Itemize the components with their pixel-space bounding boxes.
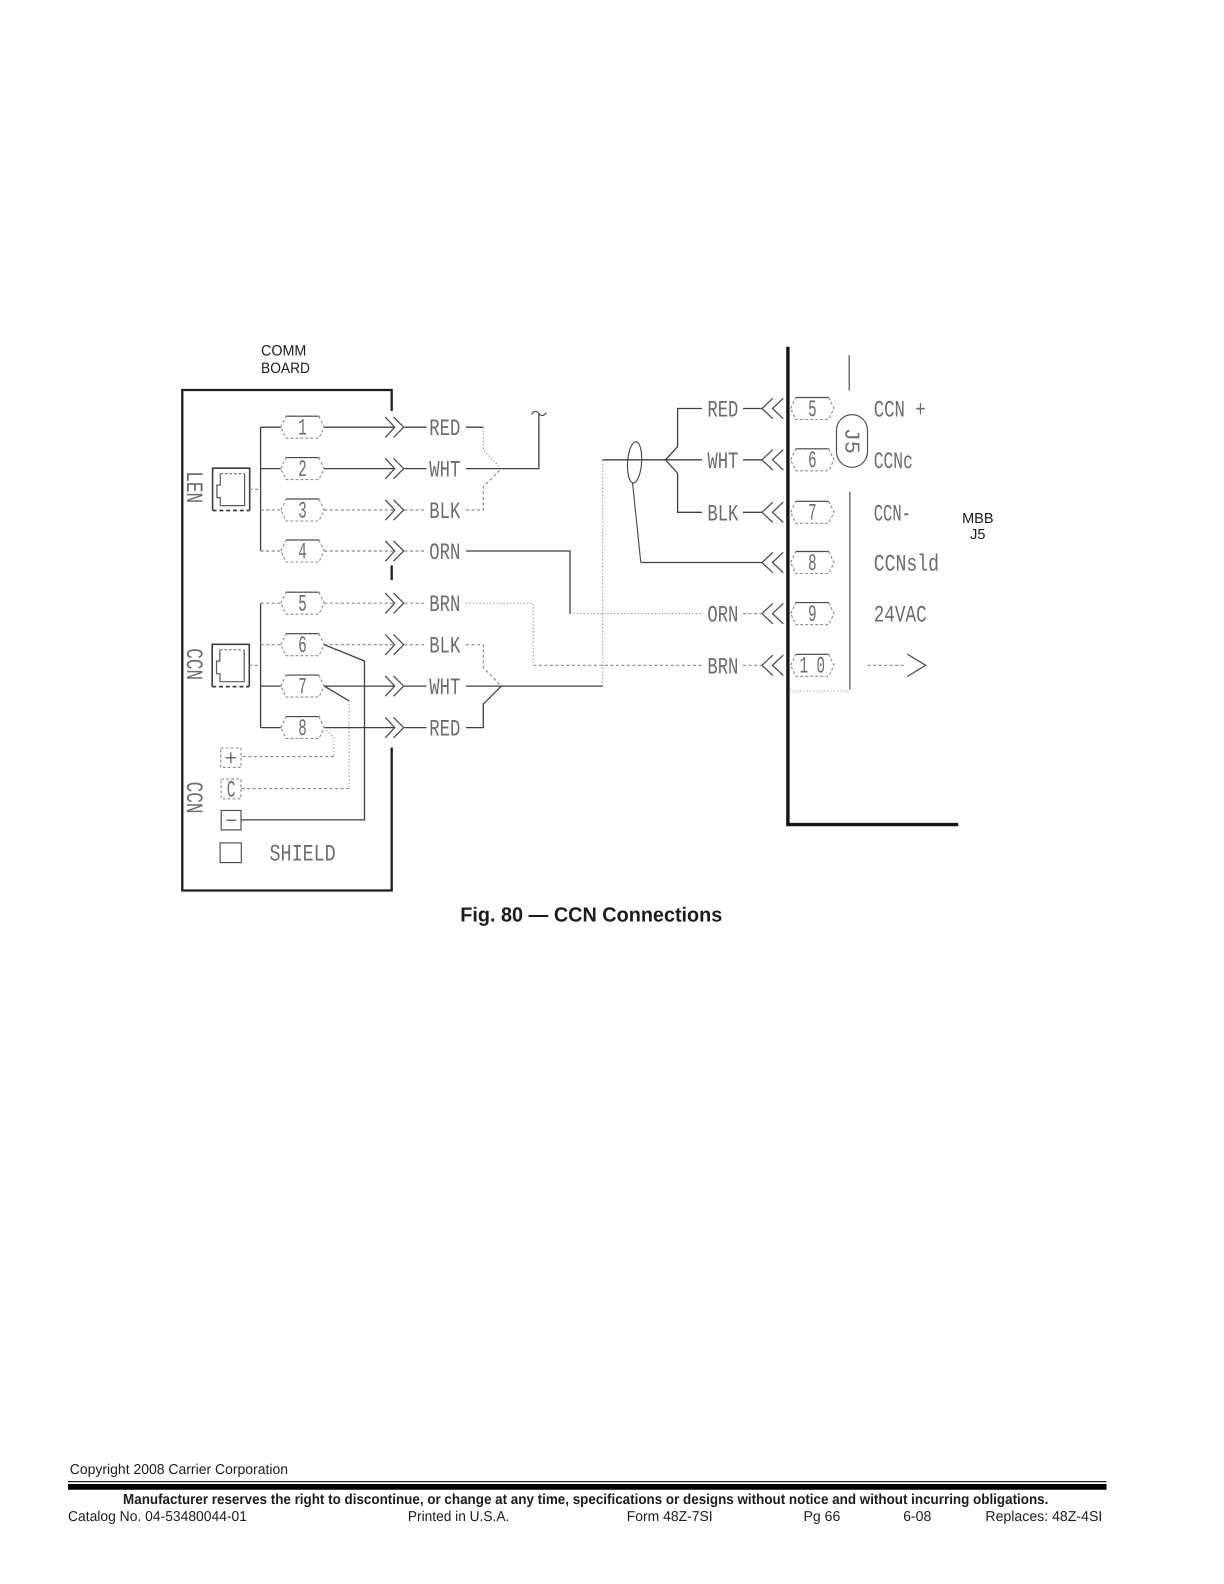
wire BRN(5) to MBB pin 10 <box>466 603 533 665</box>
wire pin 8 to + terminal <box>324 728 334 757</box>
J5 connector oval <box>837 415 868 468</box>
arrow pin 3 <box>385 500 394 520</box>
svg-text:BLK: BLK <box>429 499 461 526</box>
wire bus to pin 6 <box>261 644 281 646</box>
svg-text:CCN: CCN <box>179 648 206 680</box>
wire pin 3 to arrow <box>324 509 394 511</box>
svg-text:MBB: MBB <box>962 511 993 527</box>
terminal + <box>221 748 241 767</box>
wire label ORN pin 4 <box>405 550 427 552</box>
wire pin 7 to arrow <box>324 685 394 687</box>
svg-text:5: 5 <box>808 397 816 424</box>
LEN jack J1 <box>213 468 250 510</box>
SHIELD terminal <box>220 843 241 863</box>
svg-text:J5: J5 <box>970 527 985 543</box>
svg-text:C: C <box>227 778 235 805</box>
svg-text:Pg 66: Pg 66 <box>804 1509 841 1525</box>
svg-text:CCNc: CCNc <box>874 449 913 476</box>
svg-text:BRN: BRN <box>707 654 738 681</box>
pin 8 (MBB J5) <box>791 552 834 574</box>
wire label BLK pin 6 <box>405 644 427 646</box>
svg-text:Manufacturer reserves the righ: Manufacturer reserves the right to disco… <box>123 1492 1048 1508</box>
wire BLK(3) to merge <box>466 469 501 510</box>
wire pin 4 to arrow <box>324 550 394 552</box>
wire RED(8) to merge <box>466 686 501 728</box>
svg-text:Printed in U.S.A.: Printed in U.S.A. <box>408 1509 509 1525</box>
svg-text:9: 9 <box>808 602 816 629</box>
wire bus to pin 5 <box>261 602 281 604</box>
shield loop <box>626 441 643 483</box>
pin 5 (MBB J5) <box>791 398 834 420</box>
pin 6 (MBB J5) <box>791 449 834 471</box>
COMM BOARD box outline <box>182 390 391 891</box>
svg-text:ORN: ORN <box>429 540 460 567</box>
svg-text:1 0: 1 0 <box>800 654 825 681</box>
arrow pin 8 <box>385 717 394 737</box>
svg-text:6: 6 <box>808 448 816 475</box>
J5 connector stub <box>848 355 850 391</box>
svg-text:SHIELD: SHIELD <box>270 842 336 869</box>
wire pin 5 to arrow <box>324 602 394 604</box>
svg-text:Catalog No. 04-53480044-01: Catalog No. 04-53480044-01 <box>68 1509 247 1525</box>
svg-text:RED: RED <box>429 717 460 744</box>
svg-text:RED: RED <box>429 416 460 443</box>
svg-text:COMM: COMM <box>261 342 306 359</box>
pin 4 (COMM board) <box>281 540 324 562</box>
svg-text:RED: RED <box>707 398 738 425</box>
wire pin 6 to arrow <box>324 644 394 646</box>
arrow MBB pin 10 <box>762 655 773 675</box>
wire WHT to pin 6 <box>743 459 762 461</box>
wire label BRN pin 5 <box>405 602 427 604</box>
svg-text:8: 8 <box>808 551 816 578</box>
svg-text:Form 48Z-7SI: Form 48Z-7SI <box>627 1509 713 1525</box>
wire RED(1) to merge <box>466 426 483 428</box>
shield drain wire to pin 8 <box>633 483 641 563</box>
svg-text:WHT: WHT <box>707 449 738 476</box>
wire connector bottom <box>790 690 850 692</box>
svg-text:24VAC: 24VAC <box>874 603 927 630</box>
svg-text:CCN +: CCN + <box>874 398 926 425</box>
wire label RED pin 8 <box>405 727 427 729</box>
svg-text:BRN: BRN <box>429 592 460 619</box>
svg-text:8: 8 <box>298 716 306 743</box>
arrow MBB pin 6 <box>762 450 773 470</box>
wire label WHT pin 7 <box>405 685 427 687</box>
svg-text:Fig. 80 — CCN Connections: Fig. 80 — CCN Connections <box>460 905 722 927</box>
wire pin 2 to arrow <box>324 468 394 470</box>
svg-text:CCNsld: CCNsld <box>874 552 939 579</box>
wire bus to pin 4 <box>261 550 281 552</box>
svg-text:BOARD: BOARD <box>261 360 310 377</box>
merged LEN wire to pigtail <box>501 414 539 469</box>
CCN jack J2 <box>212 644 249 686</box>
wire LEN jack to bus <box>250 488 261 490</box>
wire bus to pin 7 <box>261 685 281 687</box>
pin 3 (COMM board) <box>281 499 324 521</box>
wire WHT(7) to merge <box>466 685 501 687</box>
pin 9 (MBB J5) <box>791 603 834 625</box>
arrow pin 1 <box>385 417 394 437</box>
arrow MBB pin 9 <box>762 603 773 623</box>
wire BLK to pin 7 <box>743 511 762 513</box>
pin 6 (COMM board) <box>281 634 324 656</box>
svg-text:5: 5 <box>298 592 306 619</box>
svg-text:J5: J5 <box>838 428 861 454</box>
wire ORN(4) to MBB pin 9 <box>466 551 570 614</box>
pin 2 (COMM board) <box>281 458 324 480</box>
svg-text:Copyright 2008 Carrier Corpora: Copyright 2008 Carrier Corporation <box>70 1462 288 1478</box>
svg-text:7: 7 <box>298 674 306 701</box>
MBB board edge (thick) <box>786 347 789 825</box>
svg-text:2: 2 <box>298 457 306 484</box>
pin 7 (COMM board) <box>281 675 324 697</box>
svg-text:Replaces: 48Z-4SI: Replaces: 48Z-4SI <box>985 1509 1102 1525</box>
svg-text:7: 7 <box>808 501 816 528</box>
svg-text:WHT: WHT <box>429 675 460 702</box>
wire RED to pin 5 <box>743 408 762 410</box>
svg-text:3: 3 <box>298 498 306 525</box>
arrow MBB pin 8 <box>762 552 773 572</box>
arrow pin 2 <box>385 458 394 478</box>
arrow pin 4 <box>385 541 394 561</box>
wire pin 7 to C terminal <box>324 686 349 701</box>
CCN bus wire <box>260 603 262 727</box>
wire WHT(2) to merge <box>466 468 501 470</box>
wire ORN to pin 9 <box>743 613 762 615</box>
wire pin 1 to arrow <box>324 426 394 428</box>
arrow MBB pin 7 <box>762 502 773 522</box>
merged CCN pair wire <box>501 685 602 687</box>
svg-text:WHT: WHT <box>429 458 460 485</box>
terminal - <box>221 811 241 830</box>
arrow MBB pin 5 <box>762 398 773 418</box>
svg-text:4: 4 <box>298 539 306 566</box>
wire BLK(6) to merge <box>466 645 501 686</box>
wire bus to pin 2 <box>261 468 281 470</box>
pigtail tilde <box>532 411 547 415</box>
svg-text:CCN: CCN <box>179 782 206 814</box>
wire bus to pin 8 <box>261 727 281 729</box>
wire CCN jack to bus <box>249 664 260 666</box>
wire pin 6 to - terminal <box>241 645 365 820</box>
wire bus to pin 3 <box>261 509 281 511</box>
footer bar thick <box>68 1484 1107 1490</box>
terminal C <box>221 779 241 799</box>
pin 10 (MBB J5) <box>791 654 834 676</box>
svg-text:LEN: LEN <box>179 471 206 503</box>
svg-text:ORN: ORN <box>707 603 738 630</box>
svg-text:BLK: BLK <box>707 501 739 528</box>
svg-text:CCN-: CCN- <box>874 501 911 528</box>
wire BRN to pin 10 <box>743 664 762 666</box>
arrow out of pin 10 <box>868 664 904 666</box>
wire label RED pin 1 <box>405 426 427 428</box>
pin 1 (COMM board) <box>281 416 324 438</box>
wire label BLK pin 3 <box>405 509 427 511</box>
arrow pin 7 <box>385 676 394 696</box>
LEN bus wire <box>260 427 262 551</box>
wire bus to pin 1 <box>261 426 281 428</box>
pin 8 (COMM board) <box>281 717 324 739</box>
arrow pin 6 <box>385 635 394 655</box>
arrow pin 5 <box>385 593 394 613</box>
footer rule thin <box>68 1481 1107 1483</box>
svg-text:6-08: 6-08 <box>903 1509 931 1525</box>
pin 7 (MBB J5) <box>791 501 834 523</box>
wire pin 8 to arrow <box>324 727 394 729</box>
J5 connector body line <box>849 492 851 690</box>
svg-text:6: 6 <box>298 633 306 660</box>
wire label WHT pin 2 <box>405 468 427 470</box>
pin 5 (COMM board) <box>281 592 324 614</box>
svg-text:BLK: BLK <box>429 634 461 661</box>
svg-text:1: 1 <box>298 416 306 443</box>
